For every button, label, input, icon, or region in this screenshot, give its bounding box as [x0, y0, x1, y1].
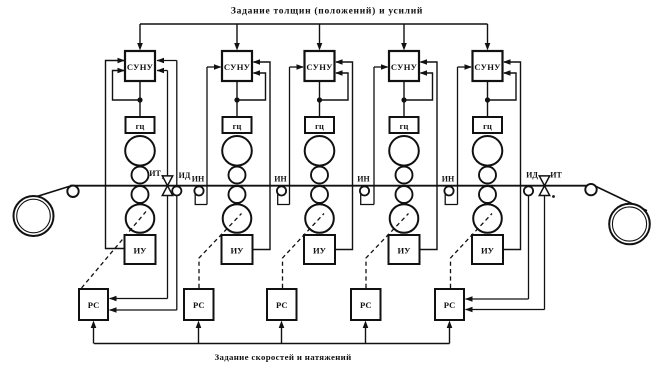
svg-text:РС: РС — [444, 300, 456, 310]
svg-text:РС: РС — [88, 300, 100, 310]
svg-text:гц: гц — [233, 122, 242, 131]
svg-text:гц: гц — [315, 122, 324, 131]
svg-text:ИУ: ИУ — [134, 246, 148, 256]
svg-text:гц: гц — [136, 122, 145, 131]
svg-text:ИУ: ИУ — [481, 246, 495, 256]
svg-text:РС: РС — [193, 300, 205, 310]
svg-text:гц: гц — [400, 122, 409, 131]
svg-text:РС: РС — [360, 300, 372, 310]
svg-text:ИУ: ИУ — [231, 246, 245, 256]
svg-text:ИТ: ИТ — [550, 171, 562, 180]
svg-text:Задание толщин (положений) и: Задание толщин (положений) и усилий — [231, 6, 423, 17]
svg-text:СУНУ: СУНУ — [224, 62, 251, 72]
svg-text:СУНУ: СУНУ — [127, 62, 154, 72]
svg-text:ИД: ИД — [179, 171, 191, 180]
svg-text:СУНУ: СУНУ — [391, 62, 418, 72]
svg-text:ИТ: ИТ — [149, 169, 161, 178]
svg-text:гц: гц — [483, 122, 492, 131]
svg-text:ИН: ИН — [274, 175, 287, 184]
svg-text:ИН: ИН — [442, 175, 455, 184]
svg-text:ИН: ИН — [192, 175, 205, 184]
svg-text:ИУ: ИУ — [398, 246, 412, 256]
svg-text:Задание скоростей и натяжений: Задание скоростей и натяжений — [214, 352, 351, 362]
svg-text:1: 1 — [161, 175, 164, 181]
svg-text:СУНУ: СУНУ — [306, 62, 333, 72]
svg-text:ИД: ИД — [526, 171, 538, 180]
svg-text:РС: РС — [276, 300, 288, 310]
svg-text:ИУ: ИУ — [313, 246, 327, 256]
svg-text:ИН: ИН — [357, 175, 370, 184]
svg-text:СУНУ: СУНУ — [474, 62, 501, 72]
